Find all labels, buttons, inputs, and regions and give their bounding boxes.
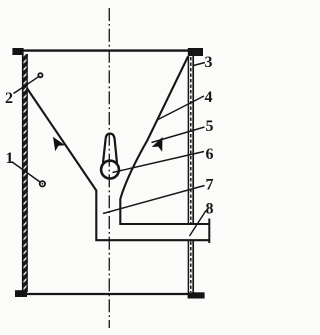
svg-text:6: 6 — [206, 146, 214, 163]
svg-text:1: 1 — [6, 150, 14, 167]
svg-text:8: 8 — [206, 201, 214, 218]
svg-text:5: 5 — [206, 118, 214, 135]
svg-text:4: 4 — [205, 89, 213, 106]
svg-text:2: 2 — [5, 90, 13, 107]
svg-text:7: 7 — [206, 177, 214, 194]
svg-text:3: 3 — [205, 54, 213, 71]
